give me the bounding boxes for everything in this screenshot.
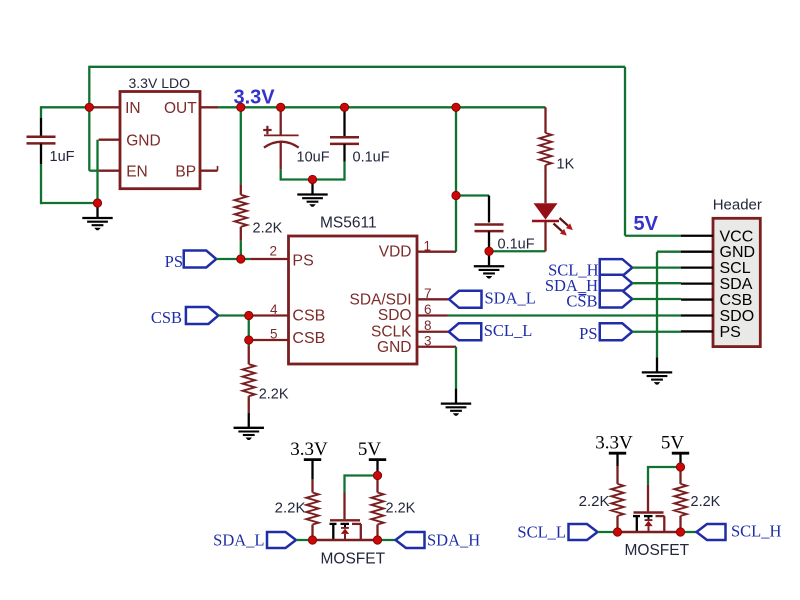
svg-text:GND: GND — [720, 244, 756, 261]
lead R4 top — [311, 479, 313, 492]
junction 3.3V/C2 — [277, 103, 285, 111]
pin VCC stub — [681, 235, 713, 237]
ground caps — [297, 180, 327, 207]
svg-text:5V: 5V — [634, 213, 659, 235]
svg-text:CSB: CSB — [292, 308, 325, 325]
pin 7 stub — [417, 298, 449, 300]
lead R5 top — [376, 476, 378, 493]
wire C1 to GND junction — [41, 202, 99, 204]
resistor R5 2.2K — [371, 493, 383, 525]
lead R1 bottom — [240, 227, 242, 241]
svg-text:SCL: SCL — [720, 260, 751, 277]
lead R4 bottom — [311, 525, 313, 541]
svg-text:1uF: 1uF — [50, 149, 75, 165]
wire SCL_H to header — [632, 266, 681, 268]
wire SDA_H port — [378, 539, 396, 541]
lead R6 top — [616, 466, 618, 484]
wire SCL_H port — [681, 531, 697, 533]
capacitor C3 0.1uF — [330, 137, 359, 144]
pin IN stub — [89, 106, 120, 108]
svg-text:1: 1 — [424, 239, 432, 254]
svg-text:2.2K: 2.2K — [386, 501, 416, 517]
svg-text:8: 8 — [424, 318, 432, 333]
lead C2 top — [280, 107, 282, 135]
wire C2 to gnd rail — [280, 170, 282, 181]
LED D1 — [532, 203, 559, 251]
resistor R1 2.2K — [235, 195, 247, 227]
svg-text:SCL_H: SCL_H — [731, 522, 782, 541]
resistor R4 2.2K — [306, 493, 318, 525]
svg-text:GND: GND — [377, 339, 411, 356]
svg-text:CSB: CSB — [151, 308, 182, 327]
resistor R6 2.2K — [611, 484, 623, 516]
port SCL_L input — [569, 524, 598, 540]
port SDA_H to header — [600, 275, 633, 292]
pin 4 stub — [250, 314, 288, 316]
pin EN stub — [99, 170, 120, 172]
junction cap gnd — [308, 175, 316, 183]
IC U1 MS5611 — [289, 236, 418, 364]
svg-text:PS: PS — [292, 252, 313, 269]
ground LDO — [82, 203, 112, 230]
svg-text:CSB: CSB — [720, 292, 753, 309]
pin SDO stub — [681, 314, 713, 316]
lead C2 bottom — [280, 143, 282, 170]
svg-text:0.1uF: 0.1uF — [353, 149, 390, 165]
svg-text:SCL_L: SCL_L — [517, 523, 566, 542]
svg-text:PS: PS — [720, 324, 741, 341]
wire SDO to header — [448, 314, 682, 316]
junction 5V gate R5 — [373, 471, 381, 479]
port SDA_L output — [449, 291, 482, 308]
voltage regulator U2 3.3V LDO — [120, 92, 200, 189]
wire 3.3V to VDD — [455, 107, 457, 251]
lead R5 bottom — [376, 525, 378, 541]
wire 3.3V rail — [218, 106, 546, 108]
junction PS net — [237, 255, 245, 263]
wire header GND down — [656, 252, 658, 358]
svg-text:SDO: SDO — [378, 307, 412, 324]
lead C4 top — [488, 196, 490, 223]
pin 6 stub — [417, 314, 448, 316]
wire CSB to header — [632, 298, 681, 300]
junction 3.3V/C3 — [340, 103, 348, 111]
wire SDA_H to header — [632, 282, 681, 284]
port SCL_H to header — [600, 259, 633, 276]
svg-text:VDD: VDD — [379, 244, 412, 261]
svg-text:3.3V: 3.3V — [290, 439, 328, 460]
wire C1 down — [40, 164, 42, 204]
junction SDA_L — [308, 536, 316, 544]
pin SDA stub — [681, 282, 713, 284]
pin GND stub — [681, 251, 713, 253]
wire PS to header — [632, 331, 681, 333]
wire PS port to pin 2 — [216, 258, 250, 260]
wire C1 top — [40, 106, 42, 118]
pin OUT stub — [200, 106, 218, 108]
wire Q2 source-drain row — [618, 531, 681, 533]
lead C4 bottom — [488, 231, 490, 251]
svg-text:4: 4 — [270, 302, 278, 317]
junction SCL_H — [676, 528, 684, 536]
svg-text:MOSFET: MOSFET — [321, 550, 386, 567]
svg-text:BP: BP — [175, 164, 196, 181]
junction 5V/IN — [85, 103, 93, 111]
lead from 3.3V bar right — [616, 453, 618, 466]
lead R3 top — [544, 107, 546, 133]
ground header — [642, 357, 672, 384]
svg-text:SDA_H: SDA_H — [427, 531, 480, 550]
svg-text:EN: EN — [126, 164, 148, 181]
port CSB input — [186, 307, 219, 324]
junction GND — [93, 199, 101, 207]
wire header GND — [657, 251, 681, 253]
lead C1 bottom — [40, 144, 42, 164]
lead C1 top — [40, 118, 42, 136]
wire SCL_L port — [598, 531, 618, 533]
pin 2 stub — [250, 258, 288, 260]
pin 5 stub — [250, 339, 288, 341]
lead C3 top — [343, 106, 345, 136]
transistor Q1 MOSFET — [330, 520, 362, 540]
svg-text:2.2K: 2.2K — [691, 494, 721, 510]
svg-text:2.2K: 2.2K — [275, 500, 306, 517]
svg-text:7: 7 — [424, 286, 432, 301]
resistor R2 2.2K pulldown — [243, 364, 255, 396]
svg-text:3.3V LDO: 3.3V LDO — [129, 75, 191, 91]
resistor R3 1K — [539, 133, 551, 165]
pin SCL stub — [681, 266, 713, 268]
wire LED cathode to gnd — [489, 250, 546, 252]
label CSB port right — [566, 292, 597, 311]
lead R2 top — [248, 346, 250, 364]
pin CSB stub — [681, 298, 713, 300]
supply 3.3V left shifter — [290, 439, 328, 460]
wire CSB down — [248, 316, 250, 348]
port SDA_H output — [396, 532, 425, 548]
supply 3.3V right shifter — [595, 433, 633, 454]
lead C3 bottom — [343, 144, 345, 162]
junction 3.3V/VDD — [452, 103, 460, 111]
lead R2 bottom — [248, 396, 250, 413]
svg-text:MS5611: MS5611 — [320, 215, 377, 232]
pin PS stub — [681, 330, 713, 332]
wire EN connect — [89, 170, 98, 172]
wire Q1 source-drain row — [313, 539, 378, 541]
wire cap gnd rail — [281, 178, 345, 180]
capacitor C1 1uF — [27, 137, 56, 144]
wire SDA_L port — [296, 539, 313, 541]
lead R6 bottom — [616, 516, 618, 532]
port PS input — [184, 251, 217, 268]
lead from 3.3V bar — [311, 460, 313, 480]
wire GND down — [96, 140, 98, 203]
lead from 5V bar — [376, 460, 378, 472]
pin 3 stub — [417, 346, 456, 348]
junction 5V gate R7 — [676, 463, 684, 471]
svg-text:Header: Header — [713, 197, 762, 214]
connector J1 Header — [713, 218, 760, 346]
junction CSB pin4 — [245, 311, 253, 319]
ground C4 — [474, 251, 504, 278]
lead R3 to LED — [544, 165, 546, 203]
lead gate right — [647, 485, 649, 512]
svg-text:5V: 5V — [358, 439, 382, 460]
lead from 5V bar right — [679, 453, 681, 463]
wire gate to 5V — [345, 476, 378, 493]
svg-text:3.3V: 3.3V — [595, 433, 633, 454]
junction CSB pin5 — [245, 336, 253, 344]
wire gate to 5V right — [648, 467, 681, 485]
svg-text:SDA: SDA — [720, 276, 753, 293]
svg-text:10uF: 10uF — [297, 149, 330, 165]
wire IN to C1 — [41, 106, 89, 108]
svg-text:SDO: SDO — [720, 308, 755, 325]
svg-text:SDA_L: SDA_L — [485, 289, 536, 308]
pin 8 stub — [417, 331, 449, 333]
lead R7 top — [679, 467, 681, 484]
svg-text:CSB: CSB — [292, 330, 325, 347]
svg-text:SDA_L: SDA_L — [213, 531, 264, 550]
wire 3.3V to R1 — [240, 107, 242, 184]
wire 5V down to header — [624, 67, 626, 236]
svg-text:2.2K: 2.2K — [253, 221, 283, 237]
wire CSB to pin4 — [218, 314, 250, 316]
svg-text:5: 5 — [270, 326, 278, 341]
svg-text:IN: IN — [125, 100, 141, 117]
svg-text:SCLK: SCLK — [371, 323, 412, 340]
supply 5V left shifter — [358, 439, 386, 460]
wire 5V down to IN/EN — [88, 66, 90, 171]
junction VDD/C4 — [452, 191, 460, 199]
svg-text:5V: 5V — [661, 433, 685, 454]
wire to C4 — [456, 194, 489, 196]
port SCL_L output — [449, 323, 482, 340]
svg-text:SCL_L: SCL_L — [484, 321, 533, 340]
wire R1 to PS net — [240, 241, 242, 259]
svg-text:1K: 1K — [557, 156, 575, 172]
svg-text:VCC: VCC — [720, 228, 754, 245]
svg-text:MOSFET: MOSFET — [625, 542, 690, 559]
pin GND stub — [99, 139, 120, 141]
junction C4/LED gnd — [485, 247, 493, 255]
svg-text:2.2K: 2.2K — [259, 386, 289, 402]
svg-text:OUT: OUT — [164, 100, 197, 117]
ground R2 — [234, 413, 264, 440]
svg-text:PS: PS — [165, 252, 183, 271]
pin BP stub — [200, 166, 218, 171]
capacitor C2 10uF polarized — [263, 126, 299, 148]
pin 1 stub — [417, 251, 456, 253]
capacitor C4 0.1uF — [475, 225, 504, 232]
junction SDA_H — [373, 536, 381, 544]
transistor Q2 MOSFET — [633, 513, 665, 533]
port PS to header — [600, 323, 633, 340]
supply 5V right shifter — [661, 433, 689, 454]
lead gate — [343, 493, 345, 520]
wire 5V top rail — [89, 66, 625, 68]
lead R7 bottom — [679, 516, 681, 532]
svg-text:PS: PS — [579, 324, 597, 343]
junction 3.3V/R1 — [237, 103, 245, 111]
wire GND pin3 down — [455, 347, 457, 389]
resistor R7 2.2K — [674, 484, 686, 516]
svg-text:2.2K: 2.2K — [579, 493, 610, 510]
svg-text:GND: GND — [126, 133, 160, 150]
LED arrows — [554, 218, 573, 236]
ground U1 — [441, 389, 471, 416]
svg-text:2: 2 — [269, 244, 277, 259]
port SCL_H output — [697, 524, 726, 540]
port SDA_L input — [267, 532, 296, 548]
svg-text:6: 6 — [424, 302, 432, 317]
junction SCL_L — [613, 528, 621, 536]
lead R1 top — [240, 184, 242, 195]
port CSB to header — [600, 291, 633, 308]
svg-text:3: 3 — [424, 333, 432, 348]
wire C3 to gnd rail — [343, 162, 345, 181]
wire 5V to VCC — [625, 235, 681, 237]
